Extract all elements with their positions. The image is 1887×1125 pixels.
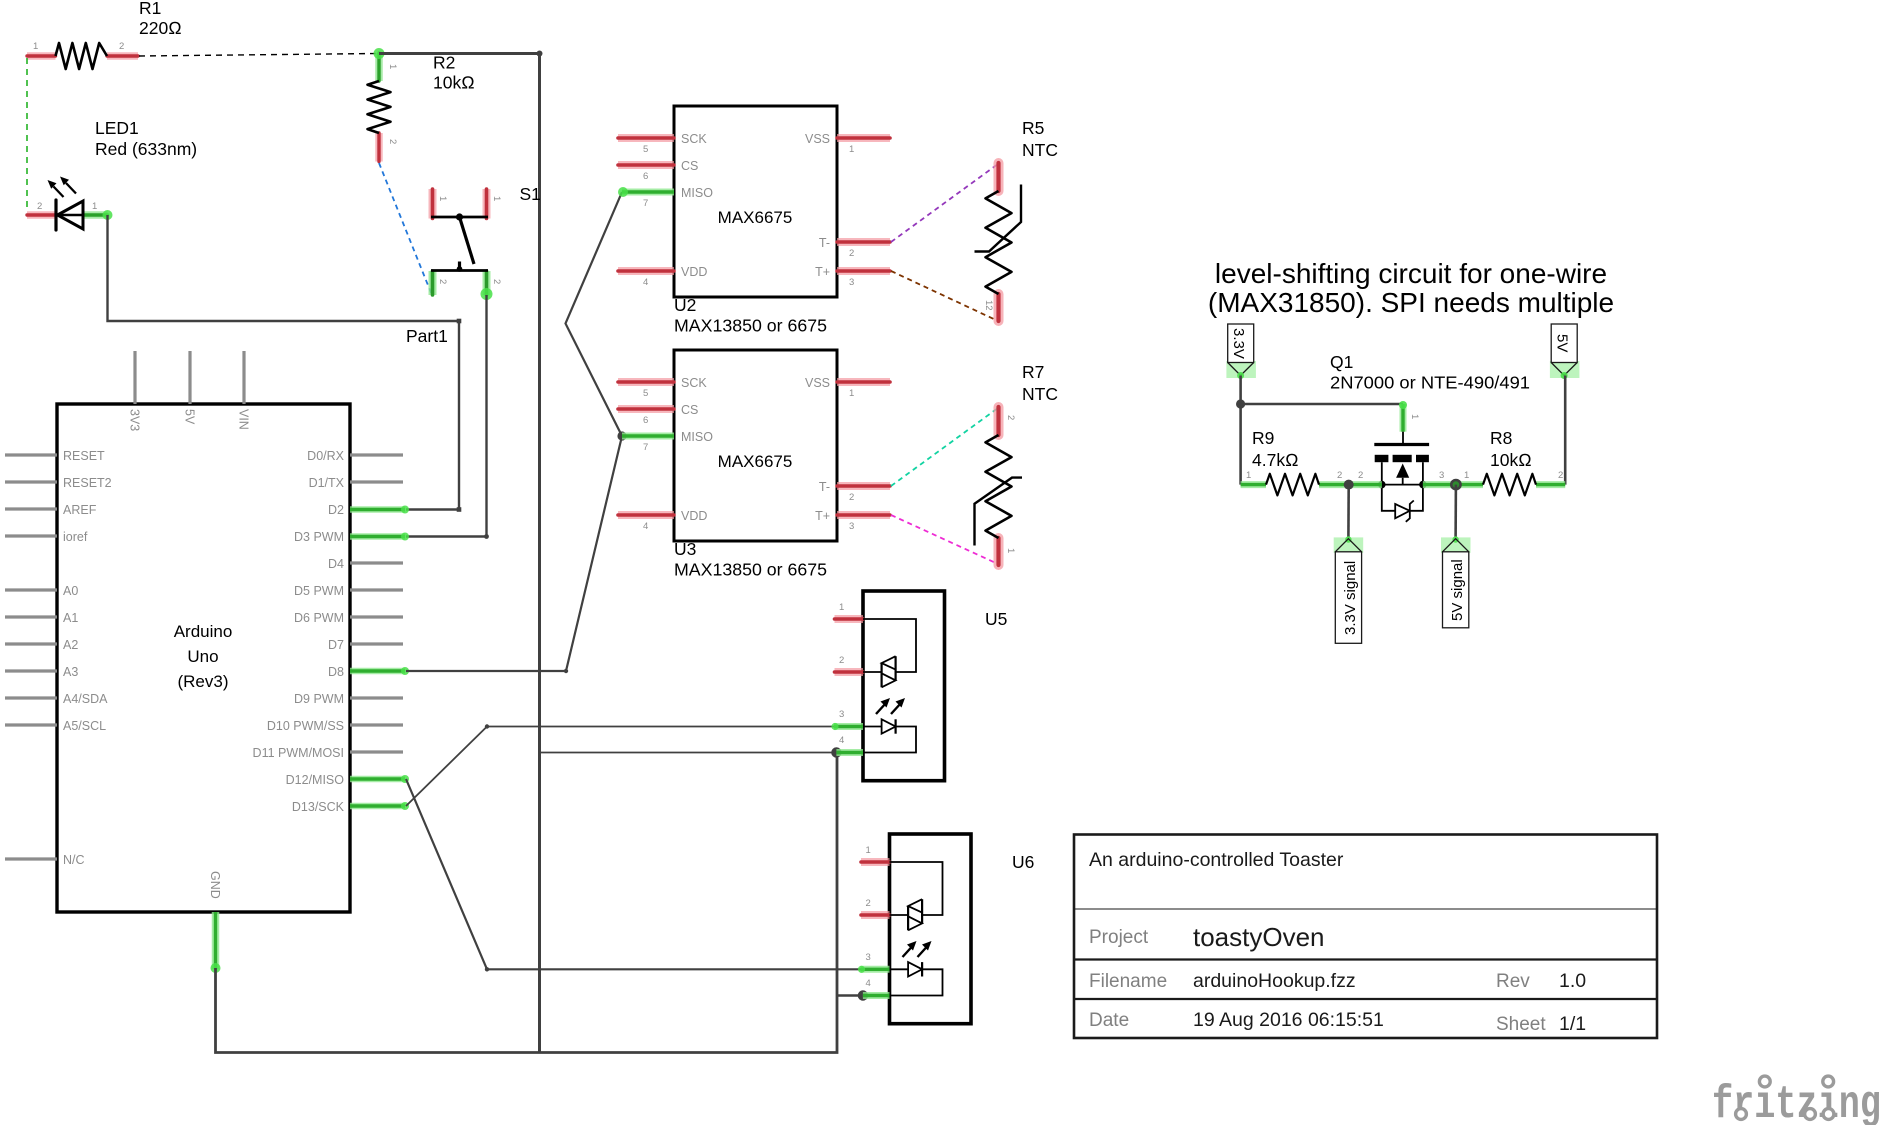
svg-text:2: 2 — [37, 201, 42, 212]
svg-text:Rev: Rev — [1496, 971, 1530, 992]
net flag 5V signal — [1441, 536, 1471, 628]
wire U6 pin4 to ground bus — [837, 994, 863, 996]
pin U6.3 — [858, 952, 890, 973]
svg-text:D2: D2 — [328, 503, 344, 517]
svg-text:Date: Date — [1089, 1010, 1129, 1031]
svg-text:RESET2: RESET2 — [63, 476, 112, 490]
svg-text:CS: CS — [681, 159, 698, 173]
wire to 5V signal flag — [1454, 485, 1457, 539]
svg-text:10kΩ: 10kΩ — [1490, 450, 1532, 470]
svg-text:SCK: SCK — [681, 376, 707, 390]
wire U2 T+ to R5 (brown dashed) — [891, 271, 998, 321]
wire U2 MISO / U3 MISO link — [566, 192, 623, 436]
svg-text:5: 5 — [643, 144, 648, 155]
wire U3 T+ to R7 (magenta dashed) — [891, 515, 998, 564]
svg-text:U3: U3 — [674, 539, 696, 559]
pin U2.1 VSS — [837, 138, 890, 155]
pin D2 (green) — [350, 506, 409, 514]
node 5V signal junction — [1451, 480, 1460, 489]
svg-text:(Rev3): (Rev3) — [177, 672, 228, 691]
svg-text:T+: T+ — [815, 509, 830, 523]
wire LED1.1 to D2 (via Part1 corner) — [108, 215, 462, 512]
svg-text:R9: R9 — [1252, 428, 1274, 448]
svg-text:2: 2 — [1005, 415, 1016, 420]
left pins RESET..N/C — [5, 449, 112, 867]
resistor R8 — [1457, 428, 1566, 495]
pin U5.2 — [835, 655, 864, 672]
svg-text:MAX6675: MAX6675 — [718, 208, 793, 227]
IC Arduino Uno — [57, 404, 350, 912]
triac inside U6 — [890, 862, 943, 930]
LED inside U6 — [890, 962, 943, 995]
title block frame — [1074, 835, 1657, 1039]
svg-text:D6 PWM: D6 PWM — [294, 611, 344, 625]
svg-text:5V signal: 5V signal — [1449, 559, 1466, 621]
svg-text:A5/SCL: A5/SCL — [63, 719, 106, 733]
node 3.3V signal junction — [1344, 480, 1354, 490]
wire D12 to U6 pin3 — [406, 779, 861, 972]
wire U2 T- to R5 (purple dashed) — [891, 164, 998, 242]
svg-text:3: 3 — [849, 521, 854, 532]
svg-text:7: 7 — [643, 198, 648, 209]
thermistor R5 — [975, 118, 1058, 321]
pin U6.4 — [863, 978, 890, 996]
pin 5V — [183, 351, 197, 425]
svg-text:1: 1 — [437, 196, 448, 201]
pin U2.4 VDD — [618, 271, 674, 288]
svg-text:U2: U2 — [674, 295, 696, 315]
power flag 5V — [1550, 324, 1580, 379]
pin U5.1 — [835, 602, 864, 619]
svg-text:R7: R7 — [1022, 362, 1044, 382]
wire R1.2 to R2.1 (black dashed) — [139, 54, 378, 57]
svg-text:Red (633nm): Red (633nm) — [95, 139, 197, 159]
svg-text:1/1: 1/1 — [1559, 1013, 1586, 1035]
title block text — [1089, 849, 1586, 1035]
svg-text:MAX13850 or 6675: MAX13850 or 6675 — [674, 316, 827, 336]
svg-text:VDD: VDD — [681, 265, 707, 279]
pin D3 (green) — [350, 533, 409, 541]
svg-text:3: 3 — [849, 277, 854, 288]
IC U2 MAX6675 — [674, 106, 837, 336]
svg-text:MISO: MISO — [681, 430, 713, 444]
svg-text:220Ω: 220Ω — [139, 18, 182, 38]
wire Q1 drain to 5V signal node (green) — [1423, 481, 1456, 488]
pin D8 (green) — [350, 667, 409, 675]
transistor Q1 2N7000 — [1330, 352, 1530, 522]
switch S1 — [431, 184, 541, 300]
wire R1.1 to LED1.2 (green dashed) — [26, 58, 28, 212]
wire U5 pin4 to ground bus — [540, 752, 837, 754]
svg-text:level-shifting circuit for one: level-shifting circuit for one-wire — [1215, 258, 1607, 289]
LED inside U5 — [863, 719, 916, 752]
svg-text:An arduino-controlled Toaster: An arduino-controlled Toaster — [1089, 849, 1344, 871]
svg-text:Arduino: Arduino — [174, 622, 233, 641]
pin VIN — [237, 351, 251, 430]
wire long vertical S1 net — [538, 54, 541, 1053]
svg-text:Part1: Part1 — [406, 326, 448, 346]
node U5 pin4 junction — [831, 747, 841, 757]
svg-text:2: 2 — [839, 655, 844, 666]
svg-text:CS: CS — [681, 403, 698, 417]
svg-text:T-: T- — [819, 480, 830, 494]
svg-text:2: 2 — [437, 279, 448, 284]
svg-text:arduinoHookup.fzz: arduinoHookup.fzz — [1193, 970, 1356, 992]
svg-text:2: 2 — [866, 898, 871, 909]
svg-text:1: 1 — [491, 196, 502, 201]
svg-text:NTC: NTC — [1022, 384, 1058, 404]
svg-text:A3: A3 — [63, 665, 78, 679]
svg-text:1: 1 — [839, 602, 844, 613]
svg-text:19 Aug 2016 06:15:51: 19 Aug 2016 06:15:51 — [1193, 1009, 1384, 1031]
svg-text:R1: R1 — [139, 0, 161, 18]
svg-text:1: 1 — [849, 144, 854, 155]
node U3 MISO junction — [617, 431, 626, 440]
IC U5 opto-triac — [863, 591, 1007, 781]
pin U2.2 T- — [837, 242, 890, 259]
svg-text:2: 2 — [849, 492, 854, 503]
svg-text:N/C: N/C — [63, 853, 85, 867]
svg-text:12: 12 — [983, 300, 994, 311]
svg-text:4: 4 — [839, 735, 844, 746]
svg-text:7: 7 — [643, 442, 648, 453]
pin U2.6 CS — [618, 165, 674, 182]
pin U5.3 — [831, 709, 863, 730]
svg-text:R8: R8 — [1490, 428, 1512, 448]
svg-text:GND: GND — [208, 871, 222, 899]
svg-text:D11 PWM/MOSI: D11 PWM/MOSI — [253, 746, 344, 760]
wire to 3.3V signal flag — [1347, 485, 1350, 539]
svg-text:5: 5 — [643, 388, 648, 399]
svg-text:3: 3 — [1439, 470, 1444, 481]
pin U2.5 SCK — [618, 138, 674, 155]
pin U3.7 MISO — [622, 436, 674, 453]
wire 5V to R8.2 — [1564, 376, 1567, 485]
svg-text:D5 PWM: D5 PWM — [294, 584, 344, 598]
svg-text:1.0: 1.0 — [1559, 970, 1586, 992]
pin 3V3 — [128, 351, 142, 431]
svg-text:SCK: SCK — [681, 132, 707, 146]
svg-text:1: 1 — [849, 388, 854, 399]
svg-text:D4: D4 — [328, 557, 344, 571]
svg-text:2: 2 — [1558, 470, 1563, 481]
svg-text:1: 1 — [1409, 414, 1420, 419]
pin U6.2 — [861, 898, 890, 915]
svg-text:2N7000 or NTE-490/491: 2N7000 or NTE-490/491 — [1330, 373, 1530, 393]
svg-text:D10 PWM/SS: D10 PWM/SS — [267, 719, 344, 733]
svg-text:MAX13850 or 6675: MAX13850 or 6675 — [674, 560, 827, 580]
svg-text:3: 3 — [866, 952, 871, 963]
svg-text:1: 1 — [92, 201, 97, 212]
svg-text:A4/SDA: A4/SDA — [63, 692, 108, 706]
svg-text:Uno: Uno — [187, 647, 218, 666]
pin U6.1 — [861, 845, 890, 862]
node U6 pin4 junction — [858, 990, 868, 1000]
pin U5.4 — [836, 735, 863, 753]
wire 3.3V to gate/R9 — [1236, 376, 1403, 485]
svg-text:S1: S1 — [520, 184, 541, 204]
svg-text:Project: Project — [1089, 927, 1149, 948]
wire Q1 source to 3.3V signal node (green) — [1349, 481, 1382, 488]
svg-text:1: 1 — [1464, 470, 1469, 481]
svg-text:Filename: Filename — [1089, 971, 1167, 992]
svg-text:AREF: AREF — [63, 503, 97, 517]
svg-text:VDD: VDD — [681, 509, 707, 523]
svg-text:VIN: VIN — [237, 409, 251, 430]
pin U3.4 VDD — [618, 515, 674, 532]
svg-text:D0/RX: D0/RX — [307, 449, 344, 463]
opto arrows U5 — [876, 698, 905, 714]
svg-text:Q1: Q1 — [1330, 352, 1353, 372]
pin U2.3 T+ — [837, 271, 890, 288]
right pins D0..D13 — [253, 449, 403, 814]
wire D13 to U5 pin3 — [406, 724, 834, 806]
svg-text:2: 2 — [491, 279, 502, 284]
svg-text:4: 4 — [866, 978, 871, 989]
svg-text:T+: T+ — [815, 265, 830, 279]
svg-text:D9 PWM: D9 PWM — [294, 692, 344, 706]
svg-text:D3 PWM: D3 PWM — [294, 530, 344, 544]
svg-text:4.7kΩ: 4.7kΩ — [1252, 450, 1299, 470]
svg-text:VSS: VSS — [805, 376, 830, 390]
wire S1.2 to D3 — [406, 295, 489, 539]
svg-text:2: 2 — [1358, 470, 1363, 481]
pin D12 (green) — [350, 775, 409, 783]
resistor R1 — [27, 0, 182, 69]
svg-text:D13/SCK: D13/SCK — [292, 800, 345, 814]
wire R2.2 to S1.2 (blue dashed) — [379, 163, 432, 294]
svg-text:RESET: RESET — [63, 449, 105, 463]
triac inside U5 — [863, 619, 916, 687]
svg-text:5V: 5V — [183, 409, 197, 425]
pin GND — [208, 871, 222, 973]
svg-text:MISO: MISO — [681, 186, 713, 200]
pin U3.6 CS — [618, 409, 674, 426]
svg-text:NTC: NTC — [1022, 140, 1058, 160]
power flag 3.3V — [1226, 324, 1256, 379]
svg-text:1: 1 — [1005, 548, 1016, 553]
pin U3.2 T- — [837, 486, 890, 503]
svg-text:VSS: VSS — [805, 132, 830, 146]
IC U6 opto-triac — [890, 834, 1035, 1024]
IC U3 MAX6675 — [674, 350, 837, 580]
svg-text:1: 1 — [33, 41, 38, 52]
svg-text:A0: A0 — [63, 584, 78, 598]
svg-text:4: 4 — [643, 277, 648, 288]
LED LED1 — [27, 118, 197, 230]
pin U3.5 SCK — [618, 382, 674, 399]
svg-text:ioref: ioref — [63, 530, 88, 544]
thermistor R7 — [975, 362, 1058, 565]
svg-text:D12/MISO: D12/MISO — [286, 773, 345, 787]
svg-text:2: 2 — [119, 41, 124, 52]
svg-text:1: 1 — [866, 845, 871, 856]
wire U3 T- to R7 (spring green dashed) — [891, 408, 998, 486]
svg-text:toastyOven: toastyOven — [1193, 922, 1325, 952]
svg-text:3: 3 — [839, 709, 844, 720]
svg-text:LED1: LED1 — [95, 118, 139, 138]
wire D8 to U3 MISO — [406, 436, 622, 673]
svg-text:D8: D8 — [328, 665, 344, 679]
svg-text:10kΩ: 10kΩ — [433, 73, 475, 93]
svg-text:D1/TX: D1/TX — [309, 476, 345, 490]
resistor R9 — [1241, 428, 1349, 495]
pin U3.3 T+ — [837, 515, 890, 532]
svg-text:6: 6 — [643, 415, 648, 426]
svg-text:MAX6675: MAX6675 — [718, 452, 793, 471]
svg-text:3.3V signal: 3.3V signal — [1342, 561, 1359, 635]
svg-text:Sheet: Sheet — [1496, 1014, 1546, 1035]
svg-text:R5: R5 — [1022, 118, 1044, 138]
svg-text:T-: T- — [819, 236, 830, 250]
svg-text:3V3: 3V3 — [128, 409, 142, 431]
svg-text:2: 2 — [387, 139, 398, 144]
svg-text:U6: U6 — [1012, 852, 1034, 872]
svg-text:3.3V: 3.3V — [1230, 328, 1247, 359]
svg-text:R2: R2 — [433, 53, 455, 73]
svg-text:(MAX31850). SPI needs multiple: (MAX31850). SPI needs multiple — [1208, 287, 1614, 318]
pin D13 (green) — [350, 802, 409, 810]
resistor R2 — [368, 48, 475, 162]
wire GND to ground net (bottom bus) — [216, 753, 838, 1053]
wire R2.1 to S1 net (top horizontal) — [379, 51, 543, 57]
svg-text:2: 2 — [849, 248, 854, 259]
svg-text:A2: A2 — [63, 638, 78, 652]
net flag 3.3V signal — [1334, 536, 1364, 643]
pin U2.7 MISO — [618, 187, 674, 209]
pin U3.1 VSS — [837, 382, 890, 399]
svg-text:D7: D7 — [328, 638, 344, 652]
svg-text:A1: A1 — [63, 611, 78, 625]
svg-text:5V: 5V — [1554, 334, 1571, 352]
fritzing logo — [1712, 1076, 1881, 1125]
svg-text:U5: U5 — [985, 609, 1007, 629]
svg-text:4: 4 — [643, 521, 648, 532]
svg-text:1: 1 — [1246, 470, 1251, 481]
svg-text:1: 1 — [387, 64, 398, 69]
svg-text:6: 6 — [643, 171, 648, 182]
svg-text:2: 2 — [1337, 470, 1342, 481]
opto arrows U6 — [903, 941, 932, 957]
note level-shifting title — [1208, 258, 1614, 318]
